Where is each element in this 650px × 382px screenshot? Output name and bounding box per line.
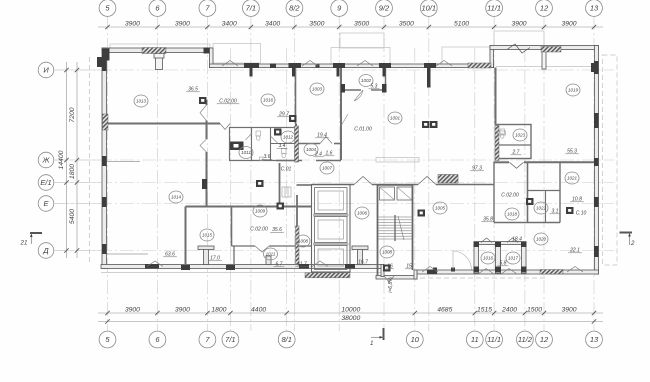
svg-text:10/1: 10/1	[421, 4, 436, 13]
svg-text:3900: 3900	[511, 20, 526, 27]
svg-text:12: 12	[540, 335, 549, 344]
svg-text:1018: 1018	[507, 212, 518, 217]
svg-text:8/2: 8/2	[289, 4, 300, 13]
svg-text:1002: 1002	[361, 78, 372, 83]
svg-text:10000: 10000	[341, 306, 360, 313]
svg-text:11/1: 11/1	[487, 335, 501, 344]
svg-text:3900: 3900	[561, 20, 576, 27]
svg-text:3900: 3900	[561, 306, 576, 313]
svg-text:1500: 1500	[527, 306, 542, 313]
svg-text:1011: 1011	[241, 150, 251, 155]
svg-text:3900: 3900	[175, 306, 190, 313]
svg-text:3500: 3500	[399, 20, 414, 27]
svg-text:1022: 1022	[536, 206, 547, 211]
svg-text:1008: 1008	[298, 239, 309, 244]
svg-text:7/1: 7/1	[246, 4, 256, 13]
svg-text:3900: 3900	[125, 306, 140, 313]
svg-text:Е/1: Е/1	[40, 178, 51, 187]
svg-text:1011: 1011	[266, 252, 276, 257]
svg-text:11: 11	[471, 335, 479, 344]
svg-text:1016: 1016	[483, 256, 494, 261]
svg-text:С.01: С.01	[281, 167, 292, 173]
svg-text:9/2: 9/2	[379, 4, 390, 13]
svg-text:13: 13	[590, 4, 599, 13]
svg-text:1: 1	[370, 340, 373, 347]
svg-text:1515: 1515	[477, 306, 492, 313]
svg-text:7/1: 7/1	[225, 335, 235, 344]
svg-text:14400: 14400	[58, 150, 65, 169]
svg-text:1003: 1003	[312, 87, 323, 92]
svg-text:8/1: 8/1	[281, 335, 291, 344]
svg-text:5100: 5100	[454, 20, 469, 27]
svg-text:С.01.00: С.01.00	[354, 127, 372, 133]
svg-text:Д: Д	[42, 246, 49, 255]
svg-text:1007: 1007	[322, 166, 333, 171]
svg-text:7200: 7200	[69, 107, 76, 122]
svg-text:5400: 5400	[69, 209, 76, 224]
svg-text:1800: 1800	[211, 306, 226, 313]
svg-text:10: 10	[411, 335, 420, 344]
svg-text:1021: 1021	[567, 176, 578, 181]
svg-text:1008: 1008	[382, 250, 393, 255]
svg-text:3400: 3400	[265, 20, 280, 27]
svg-text:2400: 2400	[501, 306, 517, 313]
svg-text:1014: 1014	[171, 195, 182, 200]
svg-text:1015: 1015	[202, 233, 213, 238]
svg-text:1006: 1006	[357, 211, 368, 216]
svg-text:1005: 1005	[435, 206, 446, 211]
svg-text:4400: 4400	[251, 306, 266, 313]
svg-text:1019: 1019	[568, 88, 579, 93]
svg-text:2: 2	[630, 240, 635, 247]
svg-text:38000: 38000	[341, 315, 360, 322]
svg-text:С.02.00: С.02.00	[501, 193, 519, 199]
svg-text:1020: 1020	[536, 237, 547, 242]
svg-text:1012: 1012	[283, 135, 294, 140]
svg-text:1001: 1001	[390, 116, 401, 121]
svg-text:1023: 1023	[515, 133, 526, 138]
svg-text:3900: 3900	[175, 20, 190, 27]
svg-text:1009: 1009	[255, 209, 266, 214]
svg-text:3500: 3500	[354, 20, 369, 27]
svg-text:И: И	[43, 66, 49, 75]
svg-text:13: 13	[590, 335, 599, 344]
svg-text:С.02.00: С.02.00	[250, 227, 268, 233]
svg-text:1013: 1013	[136, 99, 147, 104]
svg-text:11/2: 11/2	[518, 335, 533, 344]
svg-text:1800: 1800	[69, 164, 76, 179]
svg-text:4685: 4685	[437, 306, 452, 313]
svg-text:3400: 3400	[222, 20, 237, 27]
svg-text:i=6,8%: i=6,8%	[388, 277, 394, 293]
svg-text:1017: 1017	[508, 256, 519, 261]
svg-text:С.10: С.10	[576, 211, 587, 217]
svg-text:3900: 3900	[125, 20, 140, 27]
svg-text:1016: 1016	[263, 98, 274, 103]
svg-text:3500: 3500	[309, 20, 324, 27]
svg-text:21: 21	[20, 240, 28, 247]
svg-text:11/1: 11/1	[487, 4, 501, 13]
svg-text:12: 12	[540, 4, 549, 13]
svg-text:Ж: Ж	[42, 156, 51, 165]
